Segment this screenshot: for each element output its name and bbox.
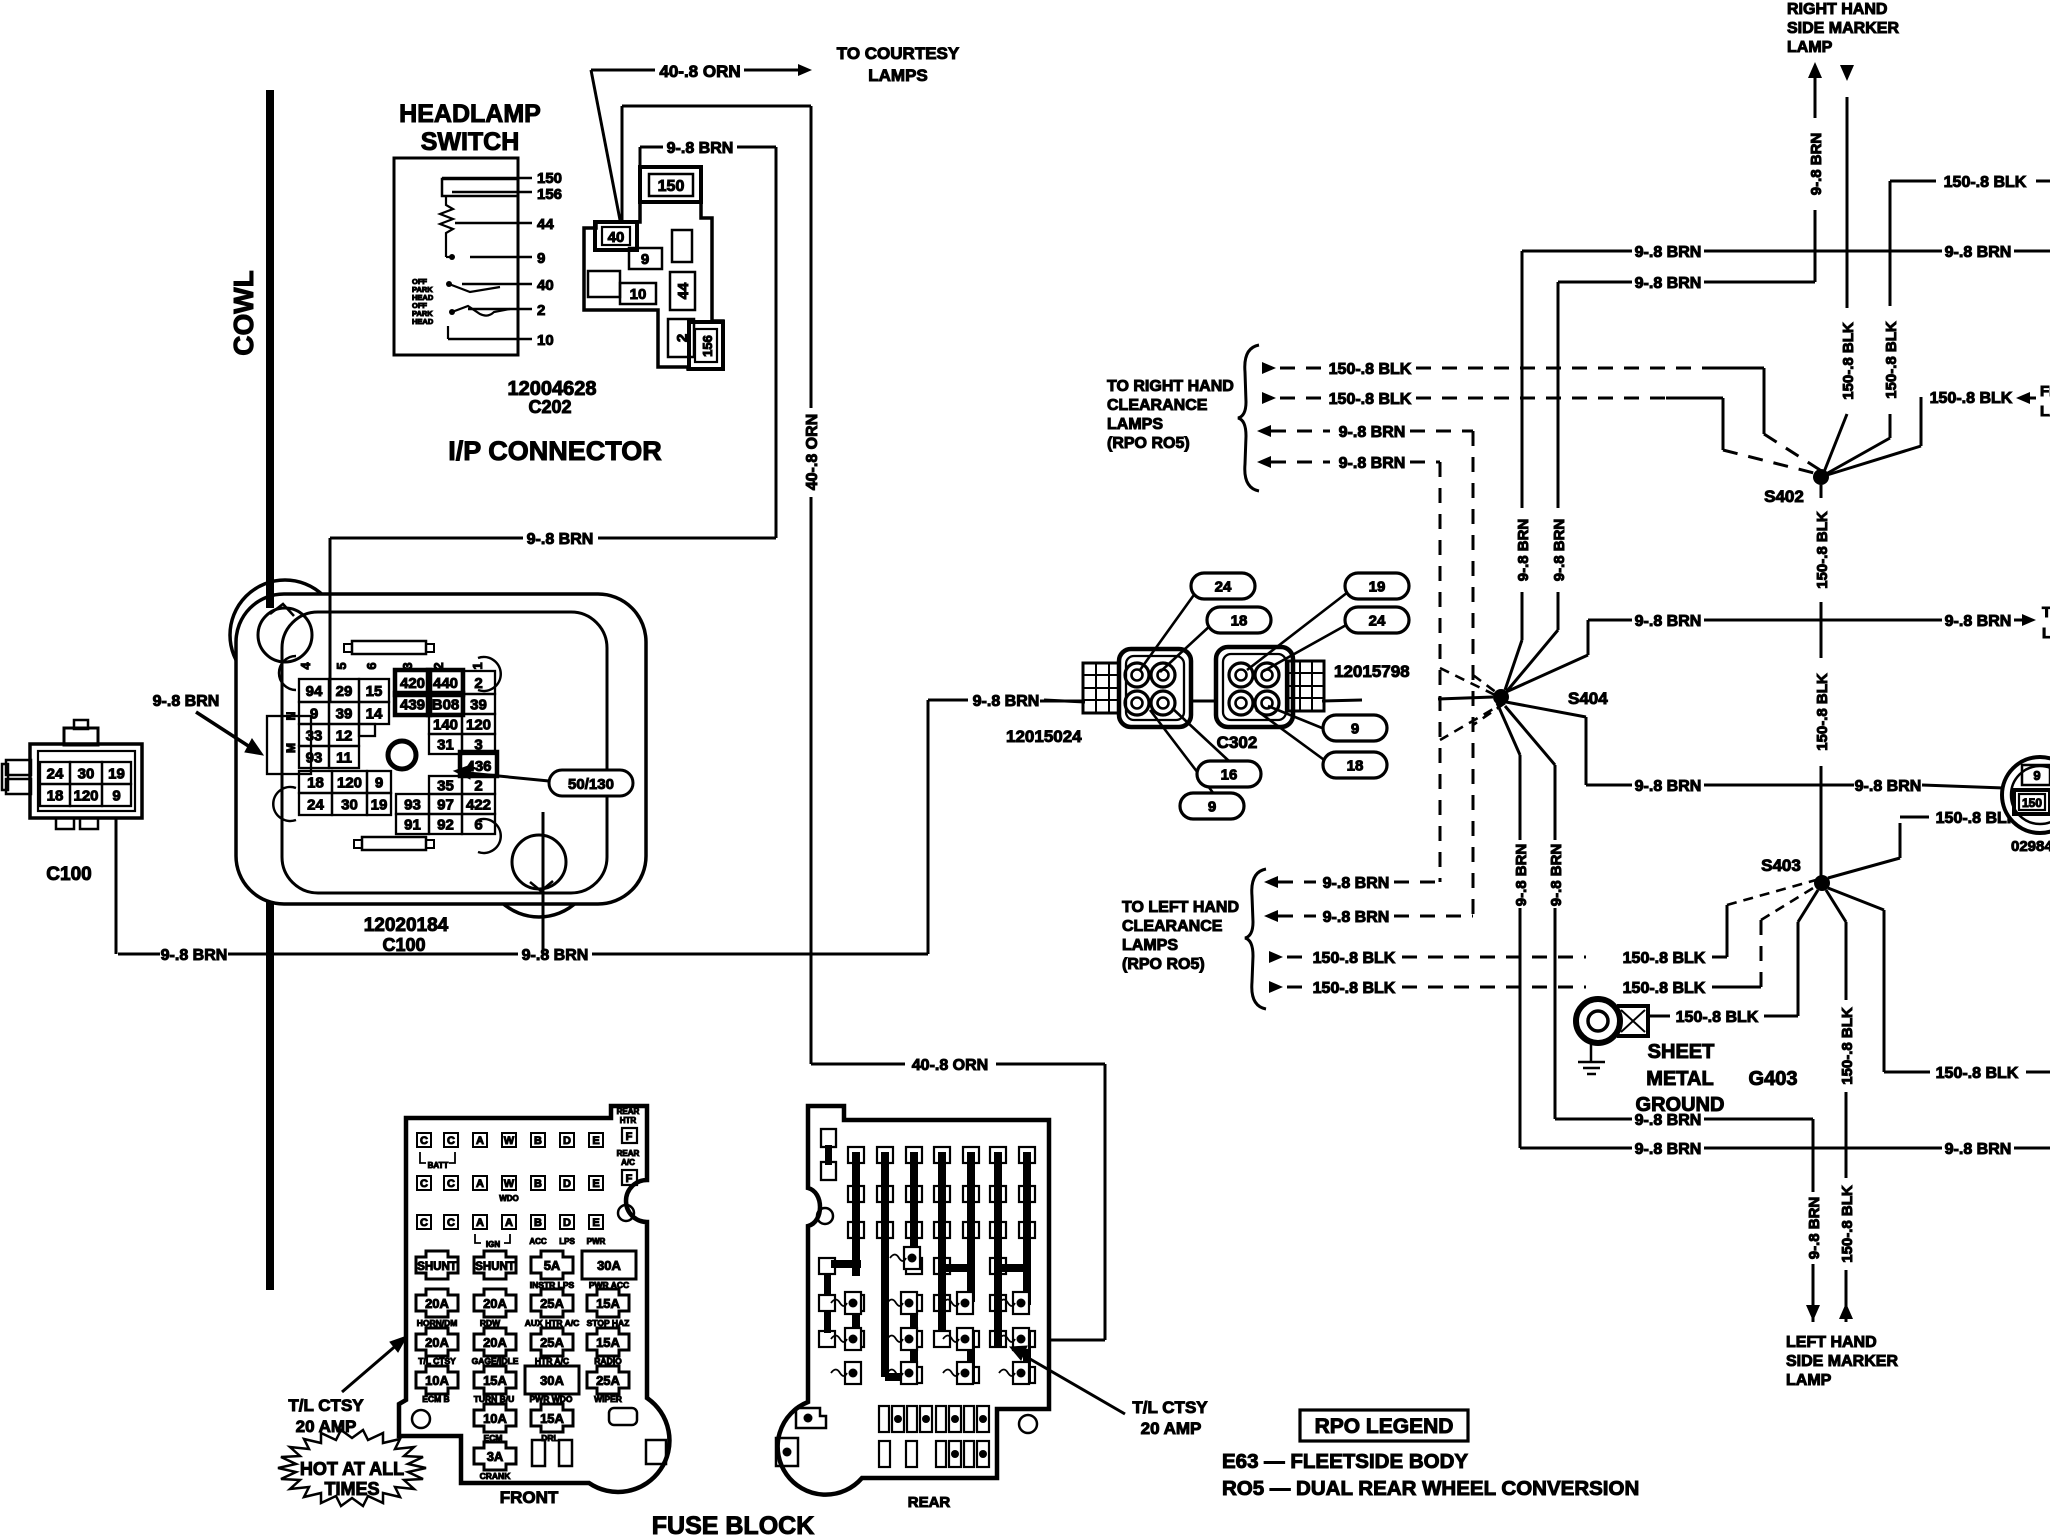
- svg-text:S404: S404: [1568, 689, 1608, 708]
- svg-text:5A: 5A: [544, 1258, 561, 1273]
- svg-text:39: 39: [470, 697, 487, 714]
- svg-text:SWITCH: SWITCH: [421, 128, 520, 156]
- svg-text:FUSE BLOCK: FUSE BLOCK: [652, 1512, 815, 1536]
- svg-text:9: 9: [112, 788, 120, 805]
- svg-text:150: 150: [537, 170, 562, 187]
- svg-text:150-.8 BLK: 150-.8 BLK: [1814, 673, 1831, 751]
- svg-text:44: 44: [675, 282, 692, 299]
- svg-text:156: 156: [700, 335, 715, 357]
- svg-text:9: 9: [2033, 768, 2040, 783]
- svg-text:LA: LA: [2040, 403, 2050, 420]
- svg-text:40: 40: [608, 229, 625, 246]
- svg-text:(RPO RO5): (RPO RO5): [1122, 956, 1205, 973]
- svg-text:9-.8 BRN: 9-.8 BRN: [1515, 519, 1532, 582]
- svg-text:SHUNT: SHUNT: [417, 1261, 457, 1273]
- svg-text:9: 9: [375, 775, 383, 792]
- svg-text:44: 44: [537, 216, 554, 233]
- svg-text:SHEET: SHEET: [1648, 1041, 1715, 1063]
- svg-text:19: 19: [1369, 579, 1386, 596]
- svg-text:40: 40: [537, 277, 554, 294]
- svg-text:SIDE MARKER: SIDE MARKER: [1787, 20, 1899, 37]
- svg-text:15: 15: [366, 683, 383, 700]
- svg-text:40-.8 ORN: 40-.8 ORN: [912, 1057, 988, 1074]
- svg-text:9-.8 BRN: 9-.8 BRN: [1635, 613, 1702, 630]
- svg-text:10A: 10A: [425, 1373, 449, 1388]
- svg-text:WIPER: WIPER: [594, 1394, 622, 1404]
- svg-text:1: 1: [470, 662, 485, 669]
- svg-text:9-.8 BRN: 9-.8 BRN: [1551, 519, 1568, 582]
- svg-text:120: 120: [337, 775, 362, 792]
- svg-text:150-.8 BLK: 150-.8 BLK: [1676, 1009, 1759, 1026]
- svg-text:9-.8 BRN: 9-.8 BRN: [1339, 424, 1406, 441]
- svg-text:E: E: [592, 1217, 599, 1229]
- svg-text:9-.8 BRN: 9-.8 BRN: [522, 947, 589, 964]
- svg-text:A: A: [505, 1217, 513, 1229]
- svg-text:439: 439: [400, 697, 425, 714]
- svg-text:HEADLAMP: HEADLAMP: [399, 100, 541, 128]
- svg-text:9-.8 BRN: 9-.8 BRN: [1635, 1112, 1702, 1129]
- svg-text:C: C: [447, 1217, 455, 1229]
- svg-text:120: 120: [466, 717, 491, 734]
- svg-text:D: D: [563, 1217, 571, 1229]
- svg-text:10: 10: [537, 332, 554, 349]
- svg-text:T/L CTSY: T/L CTSY: [1132, 1398, 1208, 1417]
- svg-text:11: 11: [336, 750, 352, 767]
- svg-text:9-.8 BRN: 9-.8 BRN: [973, 693, 1040, 710]
- svg-text:30: 30: [341, 797, 358, 814]
- svg-text:9-.8 BRN: 9-.8 BRN: [1635, 1141, 1702, 1158]
- svg-text:C: C: [420, 1217, 428, 1229]
- svg-text:97: 97: [437, 797, 454, 814]
- svg-text:B: B: [534, 1135, 542, 1147]
- svg-text:18: 18: [307, 775, 324, 792]
- svg-text:9-.8 BRN: 9-.8 BRN: [1635, 244, 1702, 261]
- svg-text:TIMES: TIMES: [324, 1479, 379, 1499]
- svg-text:12: 12: [336, 728, 353, 745]
- svg-text:12020184: 12020184: [364, 915, 449, 936]
- svg-text:50/130: 50/130: [568, 776, 614, 793]
- svg-text:FRONT: FRONT: [500, 1488, 559, 1507]
- svg-text:140: 140: [433, 717, 458, 734]
- svg-text:150-.8 BLK: 150-.8 BLK: [1313, 980, 1396, 997]
- svg-text:92: 92: [437, 817, 454, 834]
- svg-text:REAR: REAR: [617, 1149, 640, 1158]
- svg-text:15A: 15A: [483, 1373, 507, 1388]
- svg-text:CLEARANCE: CLEARANCE: [1107, 397, 1208, 414]
- svg-text:LAMPS: LAMPS: [1122, 937, 1178, 954]
- svg-text:02984: 02984: [2011, 838, 2050, 855]
- svg-text:15A: 15A: [596, 1335, 620, 1350]
- svg-text:2: 2: [474, 675, 482, 692]
- svg-text:16: 16: [1221, 767, 1238, 784]
- svg-text:150-.8 BLK: 150-.8 BLK: [1839, 1185, 1856, 1263]
- svg-text:G403: G403: [1749, 1068, 1798, 1090]
- svg-text:(RPO RO5): (RPO RO5): [1107, 435, 1190, 452]
- svg-text:C302: C302: [1217, 733, 1258, 752]
- svg-text:150-.8 BLK: 150-.8 BLK: [1329, 391, 1412, 408]
- svg-text:120: 120: [73, 788, 98, 805]
- svg-text:20A: 20A: [483, 1335, 507, 1350]
- svg-text:14: 14: [366, 706, 383, 723]
- svg-text:9-.8 BRN: 9-.8 BRN: [1945, 613, 2012, 630]
- svg-text:WDO: WDO: [499, 1194, 519, 1203]
- svg-text:3A: 3A: [487, 1449, 504, 1464]
- svg-text:SHUNT: SHUNT: [475, 1261, 515, 1273]
- svg-text:156: 156: [537, 186, 562, 203]
- svg-text:9-.8 BRN: 9-.8 BRN: [1339, 455, 1406, 472]
- svg-text:9-.8 BRN: 9-.8 BRN: [1323, 875, 1390, 892]
- svg-text:24: 24: [47, 766, 64, 783]
- svg-text:RO5 — DUAL REAR WHEEL CONVERSI: RO5 — DUAL REAR WHEEL CONVERSION: [1222, 1477, 1639, 1500]
- svg-text:B: B: [534, 1178, 542, 1190]
- svg-text:29: 29: [336, 683, 353, 700]
- svg-text:C202: C202: [528, 397, 571, 417]
- svg-text:LA: LA: [2042, 625, 2050, 642]
- svg-text:420: 420: [400, 675, 425, 692]
- svg-text:2: 2: [474, 778, 482, 795]
- svg-text:93: 93: [306, 750, 323, 767]
- svg-text:9-.8 BRN: 9-.8 BRN: [1548, 844, 1565, 907]
- svg-text:20A: 20A: [425, 1296, 449, 1311]
- svg-text:F: F: [626, 1173, 633, 1185]
- svg-text:RPO LEGEND: RPO LEGEND: [1315, 1415, 1454, 1438]
- svg-text:6: 6: [364, 662, 379, 669]
- svg-text:91: 91: [404, 817, 421, 834]
- svg-text:150-.8 BLK: 150-.8 BLK: [1623, 980, 1706, 997]
- svg-text:19: 19: [108, 766, 125, 783]
- svg-text:C: C: [447, 1135, 455, 1147]
- svg-text:W: W: [504, 1135, 515, 1147]
- svg-text:LAMPS: LAMPS: [868, 66, 928, 85]
- svg-text:M: M: [284, 743, 298, 753]
- svg-text:10: 10: [630, 286, 647, 303]
- svg-text:150-.8 BLK: 150-.8 BLK: [1944, 174, 2027, 191]
- svg-text:150-.8 BLK: 150-.8 BLK: [1883, 321, 1900, 399]
- svg-text:24: 24: [307, 797, 324, 814]
- svg-text:30A: 30A: [540, 1373, 564, 1388]
- svg-text:S402: S402: [1764, 487, 1804, 506]
- svg-text:9-.8 BRN: 9-.8 BRN: [1808, 133, 1825, 196]
- svg-text:E: E: [592, 1178, 599, 1190]
- svg-text:94: 94: [306, 683, 323, 700]
- svg-text:35: 35: [437, 778, 454, 795]
- svg-text:18: 18: [47, 788, 64, 805]
- svg-text:150-.8 BLK: 150-.8 BLK: [1623, 950, 1706, 967]
- svg-text:LPS: LPS: [559, 1237, 575, 1246]
- svg-text:20A: 20A: [425, 1335, 449, 1350]
- svg-text:422: 422: [466, 797, 491, 814]
- svg-text:9: 9: [641, 251, 649, 268]
- svg-text:D: D: [563, 1135, 571, 1147]
- svg-text:HTR: HTR: [620, 1116, 637, 1125]
- svg-text:150: 150: [658, 178, 685, 195]
- svg-text:LAMPS: LAMPS: [1107, 416, 1163, 433]
- svg-text:COWL: COWL: [228, 270, 259, 356]
- svg-text:FR: FR: [2040, 383, 2050, 400]
- svg-text:9-.8 BRN: 9-.8 BRN: [1945, 244, 2012, 261]
- svg-text:T/L CTSY: T/L CTSY: [288, 1396, 364, 1415]
- svg-text:SIDE MARKER: SIDE MARKER: [1786, 1353, 1898, 1370]
- svg-text:4: 4: [298, 662, 313, 670]
- svg-text:9-.8 BRN: 9-.8 BRN: [1513, 844, 1530, 907]
- svg-text:9-.8 BRN: 9-.8 BRN: [153, 693, 220, 710]
- svg-text:E63 — FLEETSIDE BODY: E63 — FLEETSIDE BODY: [1222, 1450, 1468, 1473]
- svg-text:9-.8 BRN: 9-.8 BRN: [1806, 1197, 1823, 1260]
- svg-text:IGN: IGN: [486, 1240, 500, 1249]
- svg-text:9-.8 BRN: 9-.8 BRN: [527, 531, 594, 548]
- svg-text:150-.8 BLK: 150-.8 BLK: [1839, 1007, 1856, 1085]
- svg-text:9: 9: [537, 250, 545, 267]
- svg-text:A/C: A/C: [621, 1158, 635, 1167]
- svg-text:A: A: [476, 1135, 484, 1147]
- svg-text:ACC: ACC: [529, 1237, 547, 1246]
- svg-text:HOT AT ALL: HOT AT ALL: [300, 1459, 404, 1479]
- svg-text:150-.8 BLK: 150-.8 BLK: [1840, 322, 1857, 400]
- svg-text:C: C: [447, 1178, 455, 1190]
- svg-text:9-.8 BRN: 9-.8 BRN: [1945, 1141, 2012, 1158]
- svg-text:HEAD: HEAD: [412, 317, 434, 326]
- svg-text:RIGHT HAND: RIGHT HAND: [1787, 1, 1887, 18]
- svg-text:LEFT HAND: LEFT HAND: [1786, 1334, 1877, 1351]
- svg-text:C100: C100: [46, 864, 91, 885]
- svg-text:18: 18: [1347, 758, 1364, 775]
- svg-text:5: 5: [334, 662, 349, 669]
- svg-text:W: W: [504, 1178, 515, 1190]
- svg-text:C100: C100: [382, 935, 425, 955]
- svg-text:9-.8 BRN: 9-.8 BRN: [1635, 275, 1702, 292]
- svg-text:I/P CONNECTOR: I/P CONNECTOR: [448, 436, 662, 466]
- svg-text:9: 9: [1351, 721, 1359, 738]
- svg-text:25A: 25A: [540, 1296, 564, 1311]
- svg-text:PWR: PWR: [587, 1237, 606, 1246]
- svg-text:9-.8 BRN: 9-.8 BRN: [667, 140, 734, 157]
- svg-text:BATT: BATT: [428, 1161, 449, 1170]
- svg-text:440: 440: [433, 675, 458, 692]
- svg-text:9-.8 BRN: 9-.8 BRN: [1855, 778, 1922, 795]
- svg-text:40-.8 ORN: 40-.8 ORN: [659, 62, 740, 81]
- svg-text:2: 2: [537, 302, 545, 319]
- svg-text:9-.8 BRN: 9-.8 BRN: [1323, 909, 1390, 926]
- svg-text:150-.8 BLK: 150-.8 BLK: [1313, 950, 1396, 967]
- svg-text:10A: 10A: [483, 1411, 507, 1426]
- svg-text:A: A: [476, 1178, 484, 1190]
- svg-text:F: F: [626, 1131, 633, 1143]
- svg-text:25A: 25A: [596, 1373, 620, 1388]
- svg-text:25A: 25A: [540, 1335, 564, 1350]
- svg-text:C: C: [420, 1178, 428, 1190]
- svg-text:24: 24: [1215, 579, 1232, 596]
- svg-text:150-.8 BLK: 150-.8 BLK: [1814, 511, 1831, 589]
- svg-text:15A: 15A: [596, 1296, 620, 1311]
- svg-text:ECM B: ECM B: [422, 1394, 449, 1404]
- svg-text:C: C: [420, 1135, 428, 1147]
- svg-text:9: 9: [1208, 799, 1216, 816]
- svg-text:6: 6: [474, 817, 482, 834]
- svg-text:9-.8 BRN: 9-.8 BRN: [161, 947, 228, 964]
- svg-text:T: T: [2042, 604, 2050, 621]
- svg-text:9-.8 BRN: 9-.8 BRN: [1635, 778, 1702, 795]
- svg-text:20A: 20A: [483, 1296, 507, 1311]
- svg-text:150-.8 BLK: 150-.8 BLK: [1936, 1065, 2019, 1082]
- svg-text:B08: B08: [432, 697, 460, 714]
- svg-text:150: 150: [2022, 796, 2042, 810]
- svg-text:150-.8 BLK: 150-.8 BLK: [1930, 390, 2013, 407]
- svg-text:30: 30: [78, 766, 95, 783]
- svg-text:24: 24: [1369, 613, 1386, 630]
- svg-text:33: 33: [306, 728, 323, 745]
- svg-text:93: 93: [404, 797, 421, 814]
- svg-text:METAL: METAL: [1646, 1068, 1713, 1090]
- svg-text:15A: 15A: [540, 1411, 564, 1426]
- svg-text:CRANK: CRANK: [480, 1471, 512, 1481]
- svg-text:D: D: [563, 1178, 571, 1190]
- svg-text:A: A: [476, 1217, 484, 1229]
- svg-text:CLEARANCE: CLEARANCE: [1122, 918, 1223, 935]
- svg-text:LAMP: LAMP: [1787, 39, 1833, 56]
- svg-text:REAR: REAR: [908, 1494, 951, 1511]
- svg-text:19: 19: [371, 797, 388, 814]
- svg-text:12015024: 12015024: [1006, 727, 1082, 746]
- svg-text:TO LEFT HAND: TO LEFT HAND: [1122, 899, 1239, 916]
- svg-text:150-.8 BLK: 150-.8 BLK: [1329, 361, 1412, 378]
- svg-text:TO COURTESY: TO COURTESY: [837, 44, 960, 63]
- svg-text:TO RIGHT HAND: TO RIGHT HAND: [1107, 378, 1234, 395]
- svg-text:REAR: REAR: [617, 1107, 640, 1116]
- svg-text:40-.8 ORN: 40-.8 ORN: [804, 414, 821, 490]
- svg-text:S403: S403: [1761, 856, 1801, 875]
- svg-text:20 AMP: 20 AMP: [1141, 1419, 1202, 1438]
- svg-text:LAMP: LAMP: [1786, 1372, 1832, 1389]
- svg-text:31: 31: [437, 737, 454, 754]
- svg-text:12015798: 12015798: [1334, 662, 1410, 681]
- svg-text:B: B: [534, 1217, 542, 1229]
- svg-text:30A: 30A: [597, 1258, 621, 1273]
- svg-text:18: 18: [1231, 613, 1248, 630]
- svg-text:E: E: [592, 1135, 599, 1147]
- svg-text:39: 39: [336, 706, 353, 723]
